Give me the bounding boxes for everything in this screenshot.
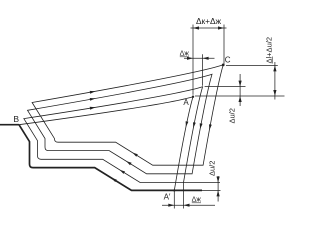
turn 4 wire contour (innermost, via C): [32, 65, 223, 165]
dim arrow pointing right at A ext: [187, 57, 193, 60]
svg-text:A: A: [183, 98, 189, 107]
underline of bottom Δж: [192, 202, 201, 204]
dim arrow down at A level: [273, 90, 276, 96]
dim arrow pointing left at F3 ext: [203, 57, 209, 60]
node A dot: [192, 96, 194, 98]
svg-text:Δж: Δж: [180, 51, 190, 58]
dim arrow up at C level: [273, 65, 276, 71]
arrow on turn4 top edge: [90, 91, 96, 94]
extension line down from B3: [183, 183, 185, 209]
node A' dot: [173, 189, 175, 191]
arrow on turn3 step: [126, 161, 132, 165]
strand wire A-A': [174, 97, 193, 191]
svg-text:B: B: [13, 114, 19, 124]
svg-text:Δl+Δu/2: Δl+Δu/2: [265, 37, 274, 64]
dim arrow up to L4: [217, 190, 220, 196]
lead-in wire at B: [0, 124, 19, 126]
extension line right from C: [226, 64, 278, 66]
extension line up from F3: [202, 54, 204, 86]
dimension line bottom Δж: [162, 204, 215, 206]
dimension line lower Δu/2: [217, 176, 219, 202]
arrow on outer step: [111, 178, 117, 182]
arrow on strand from F2: [200, 123, 203, 129]
node C dot: [222, 64, 225, 67]
outer front wire B to A': [19, 125, 202, 191]
dimension line Δк+Δж: [191, 27, 227, 29]
dimension line Δl+Δu/2: [274, 62, 276, 100]
svg-text:C: C: [225, 55, 231, 64]
extension of L3 line: [184, 182, 221, 184]
dim arrow left at A ext: [193, 26, 199, 29]
arrow on turn2 top edge: [90, 107, 96, 110]
svg-text:Δu/2: Δu/2: [228, 108, 237, 123]
turn 3 wire contour (via F2): [28, 74, 213, 174]
extension line down from A': [173, 190, 175, 208]
dim arrow down to F3 level: [239, 81, 242, 87]
dim arrow up to A level: [239, 96, 242, 102]
dimension line upper Δж: [184, 57, 215, 59]
extension line up from C: [223, 25, 225, 64]
arrow on turn4 step: [132, 153, 138, 157]
dim arrow right at C ext: [218, 26, 224, 29]
turn 2 wire contour (via F3): [24, 87, 203, 183]
arrow on turn3 top edge: [90, 98, 96, 101]
extension line up from A: [192, 25, 194, 95]
dim arrow pointing right at A' ext: [168, 204, 174, 207]
svg-text:Δк+Δж: Δк+Δж: [196, 16, 222, 26]
underline of Δl: [272, 57, 274, 64]
underline of upper Δж: [180, 56, 189, 58]
svg-text:Δu/2: Δu/2: [208, 161, 217, 176]
turn 1 top edge wire B-A: [19, 97, 193, 125]
extension line right from A: [195, 95, 285, 97]
extension line right from F3: [205, 86, 246, 88]
extension line right of A': [202, 189, 221, 191]
arrow on strand from A: [186, 121, 189, 127]
arrow on turn2 step: [120, 170, 126, 174]
dimension line upper Δu/2: [239, 74, 241, 106]
dim arrow pointing left at B3 ext: [184, 204, 190, 207]
svg-text:Δж: Δж: [192, 197, 202, 204]
dim arrow down to L3: [217, 177, 220, 183]
arrow on strand from C: [209, 124, 212, 130]
arrow on strand from F3: [193, 122, 196, 128]
svg-text:A′: A′: [164, 192, 171, 201]
